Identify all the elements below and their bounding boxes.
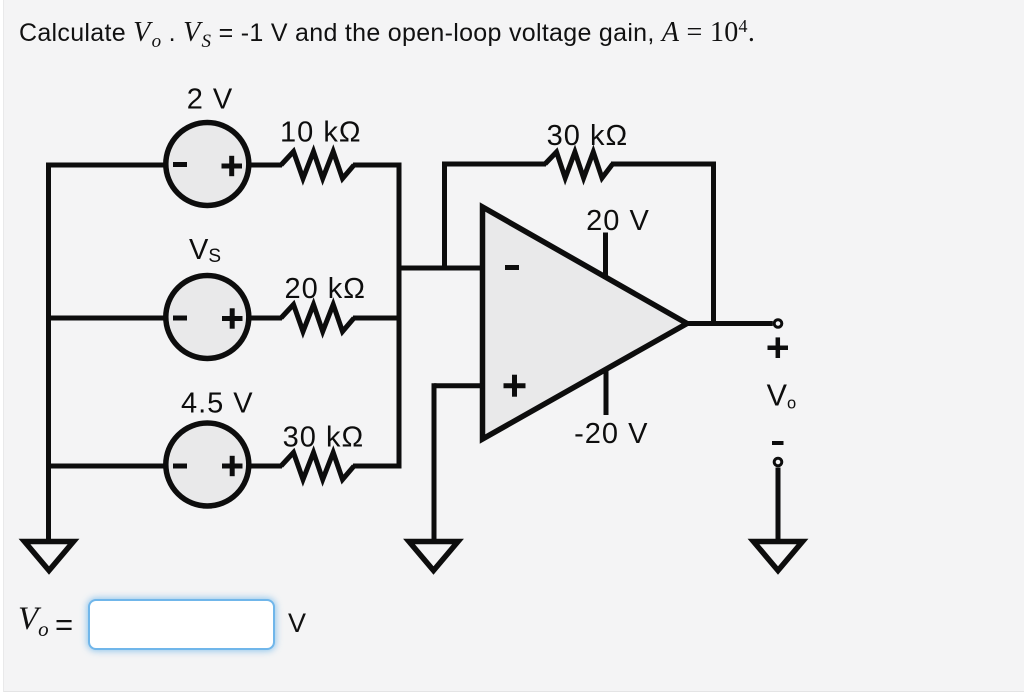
resistor R3 30 kOhm zigzag [281,453,354,480]
voltage source 2 V [166,123,249,206]
svg-text:-20 V: -20 V [574,418,648,450]
svg-text:30 kΩ: 30 kΩ [283,422,365,454]
wire: lower terminal to ground [776,468,781,543]
node: output terminal (open circle, top) [774,320,782,328]
minus sign of 4.5V source [173,464,187,469]
wire: row1 left segment [46,163,166,168]
svg-text:20 V: 20 V [586,205,650,237]
svg-text:10 kΩ: 10 kΩ [280,117,362,149]
wire: non-inverting input horizontal [434,383,484,388]
wire: feedback top left segment [442,162,546,167]
wire: feedback top right segment [611,162,716,167]
title question text [19,16,755,53]
wire: feedback right vertical down to output [711,162,716,324]
wire: row1 source to resistor [248,163,282,168]
wire: left bus vertical [46,163,51,542]
wire: row3 resistor to bus [353,464,402,469]
wire: inverting input from bus [399,266,484,271]
op-amp non-inverting input plus sign [504,375,526,397]
minus sign at output [772,441,784,445]
op-amp U1 triangle [483,207,688,439]
wire: row2 left segment [46,316,166,321]
plus sign of Vs source [222,308,243,328]
resistor Rf 30 kOhm zigzag [545,152,613,178]
wire: row1 resistor to bus [353,163,402,168]
svg-text:2 V: 2 V [187,84,234,116]
unit V [288,608,306,639]
wire: row2 resistor to bus [353,316,402,321]
wire: row2 source to resistor [248,316,282,321]
plus sign at output [768,337,789,358]
wire: non-inverting down to ground [432,383,437,542]
op-amp inverting input minus sign [505,265,519,270]
plus sign of 2V source [222,156,243,176]
ground (left) [25,542,74,571]
wire: row3 left segment [46,464,166,469]
answer label Vo = [18,601,49,642]
svg-text:VS: VS [189,234,221,267]
answer input box [88,599,275,650]
svg-text:20 kΩ: 20 kΩ [284,273,366,305]
wire: +20V supply stub [603,233,608,280]
wire: row3 source to resistor [248,464,282,469]
wire: right bus vertical joining three rows [397,163,402,469]
svg-text:Vo: Vo [767,379,797,413]
node: output terminal (open circle, bottom) [774,458,782,466]
minus sign of Vs source [173,316,187,321]
ground (right/output) [754,542,803,571]
resistor R2 20 kOhm zigzag [281,305,354,332]
ground (middle) [409,542,458,571]
voltage source 4.5 V [166,423,249,506]
wire: -20V supply stub [604,368,609,415]
svg-text:30 kΩ: 30 kΩ [547,120,629,152]
voltage source Vs [166,276,249,359]
minus sign of 2V source [173,162,187,167]
svg-text:4.5 V: 4.5 V [181,388,254,420]
resistor R1 10 kOhm zigzag [281,152,354,179]
plus sign of 4.5V source [222,456,243,476]
wire: op-amp output [685,321,773,326]
wire: feedback tap vertical [442,162,447,269]
